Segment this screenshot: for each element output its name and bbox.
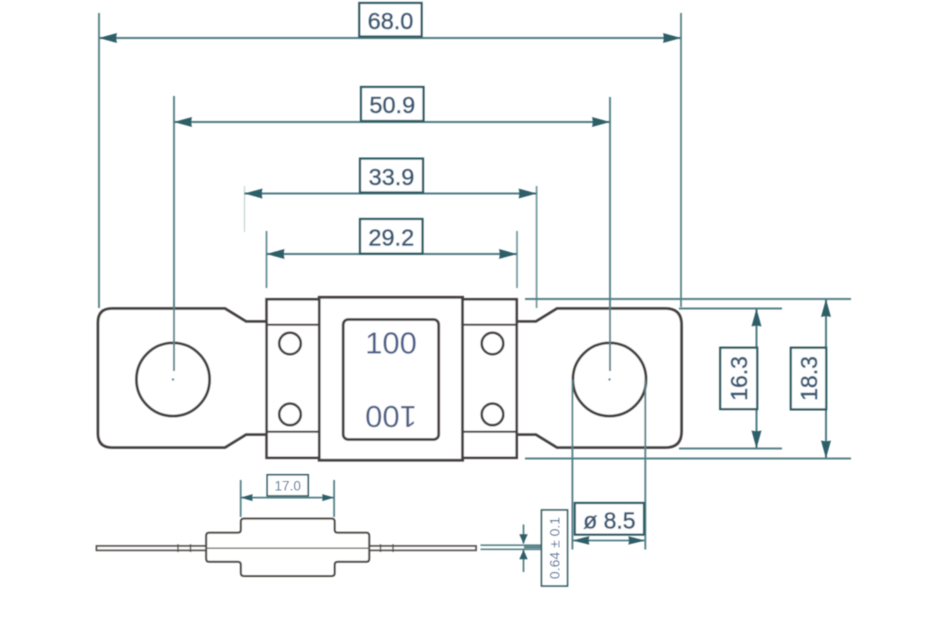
svg-text:68.0: 68.0	[368, 8, 414, 34]
svg-text:33.9: 33.9	[369, 164, 415, 190]
svg-text:17.0: 17.0	[275, 478, 301, 493]
svg-text:16.3: 16.3	[726, 356, 752, 401]
svg-text:29.2: 29.2	[368, 225, 414, 251]
svg-text:0.64 ± 0.1: 0.64 ± 0.1	[547, 517, 563, 579]
svg-text:100: 100	[365, 325, 417, 360]
svg-text:50.9: 50.9	[369, 92, 415, 118]
svg-text:100: 100	[365, 399, 417, 434]
svg-text:ø 8.5: ø 8.5	[583, 508, 635, 534]
svg-text:18.3: 18.3	[796, 356, 822, 401]
